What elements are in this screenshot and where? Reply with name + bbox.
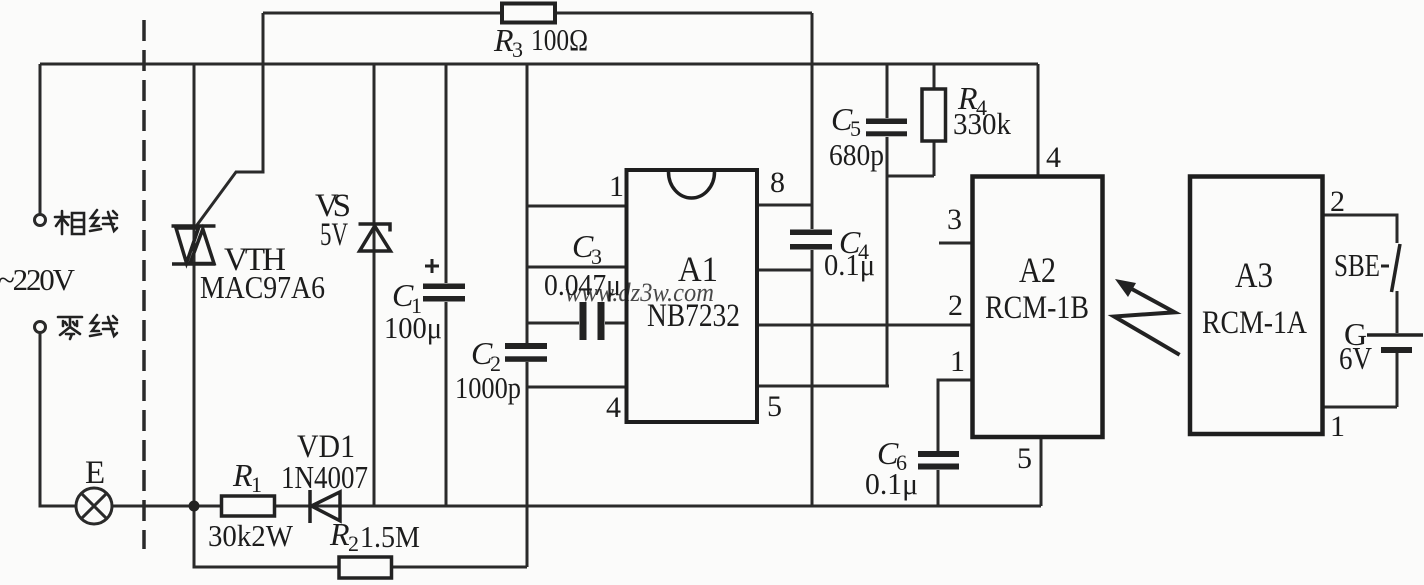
- op-amp U1 IC A1 box: [627, 170, 758, 422]
- svg-text:6V: 6V: [1339, 340, 1372, 376]
- wire A3 pin1: [1322, 406, 1397, 409]
- wire R2 loop: [194, 506, 527, 567]
- wire A2 pin4 drop: [1037, 64, 1040, 176]
- wire A1 pin8: [757, 204, 812, 207]
- svg-text:5: 5: [767, 390, 782, 423]
- svg-text:RCM-1A: RCM-1A: [1202, 305, 1307, 341]
- label phase line 相线 glyphs: [55, 210, 117, 234]
- label SBE dash: [1381, 265, 1389, 268]
- wire phase terminal drop: [39, 64, 42, 214]
- svg-text:MAC97A6: MAC97A6: [200, 269, 325, 305]
- wire C4 branch vertical: [811, 13, 814, 506]
- svg-text:R: R: [329, 516, 350, 552]
- svg-text:~220V: ~220V: [0, 262, 76, 297]
- wire A1 pin5 to C5 node: [757, 385, 889, 388]
- battery G plates: [1367, 335, 1423, 350]
- label neutral line 零线 glyphs: [58, 315, 117, 339]
- capacitor C1 plus sign: [425, 259, 439, 273]
- wire zener branch: [373, 64, 376, 506]
- resistor R1: [222, 496, 275, 516]
- wire C5 branch vertical: [886, 64, 889, 386]
- svg-text:E: E: [85, 455, 105, 491]
- wire C2 branch: [526, 64, 529, 567]
- capacitor C2 plates: [505, 343, 547, 362]
- wire triac branch: [193, 64, 196, 506]
- resistor R2: [339, 557, 392, 578]
- svg-text:4: 4: [1046, 141, 1061, 174]
- svg-text:A2: A2: [1019, 250, 1056, 290]
- wire A3 pin2 to switch: [1322, 215, 1397, 243]
- switch SBE blade: [1392, 244, 1401, 292]
- wire A2 pin3 stub: [939, 242, 972, 245]
- wire A1 pin4: [527, 386, 626, 389]
- wire A2 pin5 drop: [1040, 437, 1043, 506]
- svg-text:3: 3: [947, 203, 962, 236]
- svg-text:1: 1: [251, 472, 262, 497]
- wire neutral drop to bottom: [40, 333, 76, 506]
- lamp E: [76, 488, 112, 524]
- svg-text:5V: 5V: [320, 217, 348, 253]
- svg-text:www.dz3w.com: www.dz3w.com: [565, 278, 714, 307]
- svg-text:3: 3: [512, 37, 523, 62]
- svg-text:1: 1: [950, 345, 965, 378]
- op-amp U2 IC A2 box: [973, 177, 1103, 438]
- wire switch to battery: [1396, 291, 1399, 333]
- capacitor C3 plates: [580, 302, 605, 340]
- svg-text:2: 2: [948, 289, 963, 322]
- svg-text:R: R: [232, 457, 253, 493]
- wireless zigzag arrow: [1114, 279, 1179, 355]
- diode VD1: [310, 490, 340, 523]
- svg-text:RCM-1B: RCM-1B: [985, 290, 1089, 326]
- wire A1 right second: [757, 269, 812, 272]
- wire A2 pin1 to C6: [938, 380, 972, 451]
- resistor R3: [502, 4, 555, 23]
- capacitor C6 plates: [918, 451, 959, 470]
- op-amp U3 IC A3 box: [1190, 177, 1323, 435]
- svg-text:4: 4: [606, 391, 621, 424]
- node phase terminal: [35, 215, 46, 226]
- svg-text:330k: 330k: [953, 106, 1011, 141]
- svg-text:1N4007: 1N4007: [281, 459, 368, 495]
- svg-text:2: 2: [1330, 185, 1345, 218]
- svg-text:1: 1: [609, 170, 624, 203]
- wire bottom rail: [112, 505, 1041, 508]
- svg-text:1000p: 1000p: [455, 370, 521, 405]
- resistor R4: [922, 89, 946, 141]
- svg-text:8: 8: [770, 166, 785, 199]
- capacitor C5 plates: [866, 119, 907, 137]
- svg-text:5: 5: [1017, 442, 1032, 475]
- wire top gate loop horizontal: [263, 12, 812, 15]
- zener diode VS: [359, 224, 391, 251]
- svg-text:A3: A3: [1235, 255, 1273, 295]
- capacitor C4 plates: [790, 230, 832, 250]
- svg-text:1: 1: [1330, 410, 1345, 443]
- node neutral terminal: [35, 322, 46, 333]
- node junction dot: [189, 501, 200, 512]
- svg-text:680p: 680p: [829, 137, 884, 172]
- svg-text:R: R: [493, 22, 514, 58]
- wire C5 R4 junction: [887, 175, 934, 178]
- wire C3 link: [527, 322, 626, 325]
- wire A1 second left: [527, 266, 626, 269]
- wire A1 to A2 pin2: [757, 324, 972, 327]
- svg-text:0.1μ: 0.1μ: [824, 247, 875, 282]
- svg-text:100μ: 100μ: [384, 310, 442, 345]
- wire gate vertical and diagonal to triac: [197, 13, 263, 225]
- wire battery to pin1: [1396, 353, 1399, 407]
- capacitor C1 plates: [423, 284, 465, 302]
- wire C1 branch: [445, 64, 448, 506]
- wire main top rail: [40, 63, 1038, 66]
- svg-text:100Ω: 100Ω: [531, 22, 588, 57]
- wire A1 pin1: [527, 205, 626, 208]
- svg-text:0.1μ: 0.1μ: [865, 466, 918, 501]
- svg-text:1.5M: 1.5M: [360, 519, 420, 554]
- svg-text:30k2W: 30k2W: [208, 518, 294, 553]
- svg-text:3: 3: [591, 244, 602, 269]
- boundary dashed line: [142, 20, 146, 549]
- wire C6 bottom lead: [937, 470, 940, 506]
- svg-text:SBE: SBE: [1334, 247, 1380, 283]
- transistor VTH triac symbol: [172, 226, 216, 264]
- wire R4 leads: [933, 64, 936, 176]
- svg-text:2: 2: [348, 531, 359, 556]
